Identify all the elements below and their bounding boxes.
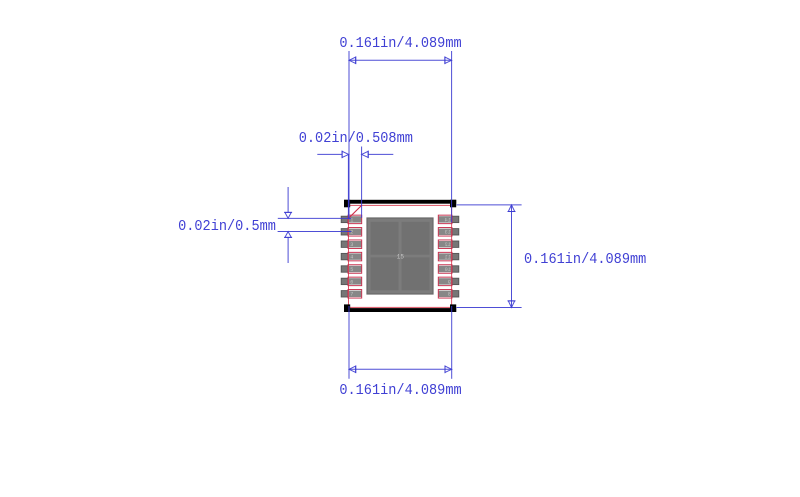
pad 12 land outline <box>438 240 452 249</box>
pin 1 marker diagonal <box>348 205 361 218</box>
svg-text:0.02in/0.508mm: 0.02in/0.508mm <box>299 130 413 147</box>
bottom dim right arrow <box>445 366 452 372</box>
top package edge bar (black) <box>344 200 456 204</box>
pad 10 <box>439 266 459 273</box>
pad 8 <box>439 291 459 298</box>
pad 14 <box>439 216 459 223</box>
svg-text:13: 13 <box>445 230 451 236</box>
svg-text:11: 11 <box>445 255 451 261</box>
svg-text:7: 7 <box>350 292 353 298</box>
pad 7 land outline <box>348 290 362 299</box>
pad 11 <box>439 253 459 260</box>
top dim right arrow <box>445 57 452 63</box>
bottom-left corner cap <box>344 304 350 312</box>
pad 5 land outline <box>348 265 362 274</box>
pad 4 land outline <box>348 252 362 261</box>
pad 7 <box>341 291 361 298</box>
pad 6 land outline <box>348 277 362 286</box>
top-right corner cap <box>450 200 456 208</box>
svg-text:8: 8 <box>448 292 451 298</box>
0.5 pitch dim: lower vertical + up arrow <box>287 237 289 263</box>
pad 13 land outline <box>438 228 452 237</box>
top dim extension lines <box>348 51 350 219</box>
right dim extension lines <box>457 204 522 206</box>
0.5 pitch extension lines <box>278 217 351 219</box>
pad 2 <box>341 229 361 236</box>
pad 1 <box>341 216 361 223</box>
svg-text:0.161in/4.089mm: 0.161in/4.089mm <box>339 35 461 52</box>
0.508 dim second extension line <box>361 147 363 218</box>
svg-text:15: 15 <box>397 254 405 261</box>
package body outline (red) <box>349 205 452 307</box>
bottom dim left arrow <box>349 366 356 372</box>
right dim bottom arrow <box>508 301 514 308</box>
right dim top arrow <box>508 205 514 212</box>
pad 8 land outline <box>438 290 452 299</box>
top-left corner cap <box>344 200 350 208</box>
right pads 14-8 (gray copper) <box>439 216 459 298</box>
svg-text:14: 14 <box>445 217 451 223</box>
svg-text:0.161in/4.089mm: 0.161in/4.089mm <box>339 382 461 399</box>
pad 14 land outline <box>438 215 452 224</box>
bottom dim line <box>349 368 452 370</box>
pad 2 land outline <box>348 228 362 237</box>
right dim vertical line <box>511 205 513 308</box>
pad 12 <box>439 241 459 248</box>
svg-text:4: 4 <box>350 255 353 261</box>
left pads 1-7 (gray copper) <box>341 216 361 298</box>
svg-text:2: 2 <box>350 230 353 236</box>
svg-text:9: 9 <box>448 279 451 285</box>
pad 1 land outline <box>348 215 362 224</box>
0.508 left arrow + tail <box>317 153 342 155</box>
svg-text:10: 10 <box>445 267 451 273</box>
top dim left arrow <box>349 57 356 63</box>
pad 9 land outline <box>438 277 452 286</box>
pad 3 <box>341 241 361 248</box>
pad 3 land outline <box>348 240 362 249</box>
svg-text:0.02in/0.5mm: 0.02in/0.5mm <box>178 219 276 236</box>
bottom-right corner cap <box>450 304 456 312</box>
0.5 pitch dim: upper vertical + down arrow <box>287 187 289 212</box>
svg-text:12: 12 <box>445 242 451 248</box>
svg-text:0.161in/4.089mm: 0.161in/4.089mm <box>524 251 646 268</box>
bottom dim extension lines <box>348 306 350 379</box>
pad 13 <box>439 229 459 236</box>
svg-text:3: 3 <box>350 242 353 248</box>
pad 11 land outline <box>438 252 452 261</box>
pad 4 <box>341 253 361 260</box>
bottom package edge bar (black) <box>344 308 456 312</box>
0.508 dim left extension line (doubles body edge line) <box>347 154 349 219</box>
thermal pad 15 (center exposed pad) <box>367 218 433 294</box>
0.508 right arrow + tail <box>368 153 393 155</box>
svg-text:6: 6 <box>350 279 353 285</box>
pad land pattern boxes (red) <box>348 215 452 298</box>
pad 5 <box>341 266 361 273</box>
pad 10 land outline <box>438 265 452 274</box>
dimension texts <box>178 35 646 399</box>
blue dimension graphics <box>278 51 522 379</box>
svg-text:5: 5 <box>350 267 353 273</box>
top dim line <box>349 59 452 61</box>
pad 9 <box>439 278 459 285</box>
pad 6 <box>341 278 361 285</box>
